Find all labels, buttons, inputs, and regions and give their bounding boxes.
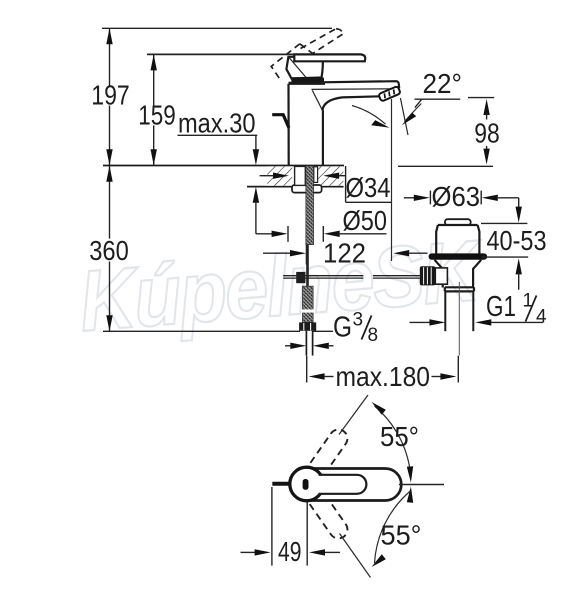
drain pop-up cap [445, 219, 471, 225]
svg-text:40-53: 40-53 [487, 225, 547, 256]
spout crease [312, 90, 322, 110]
svg-text:G1: G1 [486, 291, 516, 323]
svg-text:22°: 22° [423, 68, 463, 99]
rod clamp [296, 272, 305, 283]
drain body under gasket [435, 260, 482, 288]
water stream line [400, 98, 408, 135]
122 dim [263, 252, 291, 254]
small piece right of shank [314, 167, 318, 183]
spout underside curve [322, 96, 380, 110]
max.30 arrow below deck [253, 187, 259, 203]
98 dim [468, 97, 494, 99]
svg-text:4: 4 [536, 307, 547, 328]
deck ref right segment [398, 165, 493, 167]
stub left [272, 482, 290, 486]
max.180 dim [306, 356, 308, 383]
svg-text:159: 159 [138, 100, 176, 131]
lift rod vertical [306, 245, 309, 287]
dashed handle up 55 [305, 426, 351, 481]
Ø50 dim [256, 233, 273, 235]
dimension 197 vertical line [106, 28, 112, 165]
handle base dark bottom [291, 77, 324, 82]
svg-text:max.180: max.180 [336, 361, 431, 392]
solid lever bar [294, 54, 365, 61]
drain flange cone [436, 225, 479, 254]
40-53 lower ref + arrow [481, 256, 528, 258]
drain threaded pipe [444, 291, 446, 331]
360 bottom reference line [103, 330, 300, 332]
hatch right [318, 166, 343, 185]
upper 55 diagonal [339, 395, 368, 435]
svg-text:55°: 55° [380, 421, 419, 452]
drain knob connector [435, 268, 447, 284]
right curved arrow (22deg) [405, 104, 422, 122]
Ø34 arrows [260, 175, 274, 177]
center axis right [399, 484, 444, 486]
drain ring [445, 287, 474, 291]
max.30 arrow to deck top [255, 135, 257, 150]
spacer in hole [295, 166, 306, 185]
horizontal pop-up rod (left segment) [283, 275, 363, 277]
deck bottom line [247, 186, 344, 188]
lever inner capsule [319, 475, 367, 494]
svg-text:122: 122 [323, 238, 366, 269]
left curved arrow (22deg) [352, 106, 386, 125]
svg-text:98: 98 [474, 118, 500, 149]
drain gasket [429, 253, 488, 259]
svg-text:55°: 55° [381, 520, 422, 551]
faucet body top line [289, 83, 326, 85]
hex nut [299, 322, 316, 330]
svg-text:49: 49 [278, 536, 302, 567]
lever outer capsule [292, 469, 401, 501]
svg-text:8: 8 [368, 325, 379, 346]
svg-text:360: 360 [89, 235, 129, 266]
horizontal pop-up rod (right segment) [373, 275, 420, 277]
handle circle [290, 467, 324, 501]
svg-text:3: 3 [353, 310, 364, 331]
upper 55 arc [375, 406, 411, 479]
body right edge [322, 110, 324, 165]
svg-text:max.30: max.30 [178, 108, 256, 139]
aerator [378, 86, 400, 102]
G3/8 pipe [305, 331, 307, 356]
svg-text:G: G [333, 312, 352, 344]
spout outlet extension line [391, 99, 393, 261]
svg-text:Ø50: Ø50 [343, 205, 388, 236]
braided hose [303, 286, 314, 322]
svg-text:Ø34: Ø34 [346, 172, 391, 203]
deck line [103, 165, 344, 167]
lower 55 diagonal [340, 534, 371, 578]
reference line (159) [147, 53, 296, 55]
mounting washer below deck [292, 185, 322, 193]
Ø63 dim [404, 197, 415, 199]
G3/8 dim arrows [285, 345, 292, 347]
svg-text:197: 197 [91, 80, 130, 111]
49 dim [271, 487, 273, 566]
pop-up rod knob at rear [272, 115, 289, 128]
drain knurled knob [420, 266, 436, 285]
G1 1/4 leader [410, 321, 431, 323]
dashed handle raised outline [271, 29, 342, 79]
lower 55 arc [375, 491, 411, 564]
hatch left [267, 166, 292, 185]
Ø34 label bracket [345, 166, 347, 202]
handle base crease [289, 57, 307, 78]
spout top edge [289, 81, 400, 88]
threaded shank [306, 166, 314, 245]
drain center line [458, 282, 460, 356]
body left edge [287, 84, 289, 166]
spout inner top line [312, 88, 397, 91]
svg-text:Ø63: Ø63 [432, 181, 481, 212]
360 dim [106, 166, 112, 332]
flange top ref line [481, 222, 527, 224]
dimension 159 vertical line [151, 54, 157, 165]
top reference line (197) [102, 27, 332, 29]
slot in circle [303, 479, 309, 490]
handle base [286, 57, 322, 79]
dashed handle down 55 [305, 487, 351, 542]
